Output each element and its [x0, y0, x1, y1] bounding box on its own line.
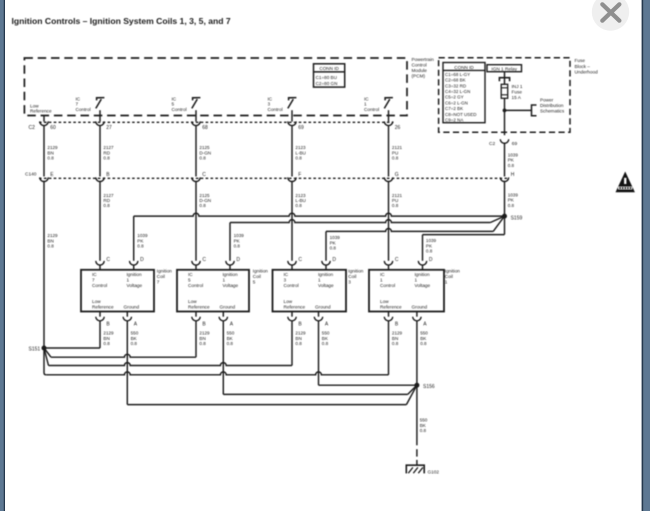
svg-text:Distribution: Distribution — [540, 103, 564, 108]
wire 550 BK 0.8 below coil 5 pin A — [223, 321, 234, 395]
coil 7 terminal C — [96, 257, 111, 270]
svg-text:0.8: 0.8 — [322, 341, 329, 346]
svg-text:0.8: 0.8 — [199, 156, 206, 161]
svg-text:0.8: 0.8 — [103, 203, 110, 208]
svg-text:Fuse: Fuse — [512, 90, 523, 95]
svg-text:C: C — [202, 172, 206, 178]
ignition voltage bus to coil 1 pin D — [423, 216, 505, 261]
coil 3 terminal B — [288, 312, 303, 328]
svg-text:Power: Power — [540, 97, 554, 102]
svg-text:C4=32 L-GN: C4=32 L-GN — [445, 89, 470, 94]
svg-text:27: 27 — [106, 125, 112, 131]
svg-text:Control: Control — [188, 283, 203, 288]
coil 3 terminal D — [322, 257, 337, 270]
wire break before ground — [416, 449, 418, 465]
PCM module dashed outline — [24, 58, 407, 116]
IC 5 Control driver switch Q2 inside PCM — [172, 96, 201, 121]
PCM module name label — [412, 57, 435, 78]
C2 terminal 27 — [96, 121, 112, 130]
svg-text:D: D — [236, 257, 240, 263]
Fuse Block - Underhood dashed outline — [439, 58, 570, 133]
svg-text:CONN ID: CONN ID — [319, 66, 339, 71]
svg-text:0.8: 0.8 — [420, 428, 427, 433]
svg-text:7: 7 — [157, 279, 160, 284]
svg-text:0.8: 0.8 — [47, 244, 54, 249]
svg-text:D: D — [140, 257, 144, 263]
ground bus from coil 7 pin A to S156 — [127, 385, 417, 404]
coil 7 terminal D — [130, 257, 145, 270]
svg-text:69: 69 — [298, 125, 304, 131]
wire 2125 D-GN 0.8 from C2 to C140 — [196, 126, 211, 177]
svg-text:S151: S151 — [29, 347, 41, 353]
svg-text:Reference: Reference — [30, 109, 52, 114]
svg-text:69: 69 — [512, 141, 518, 147]
wire 1039 PK 0.8 from C140 H down to splice S159 — [505, 181, 519, 216]
svg-text:C1=68 L-GY: C1=68 L-GY — [445, 72, 470, 77]
coil 5 terminal B — [192, 312, 207, 328]
svg-text:0.8: 0.8 — [330, 246, 337, 251]
ground bus from coil 3 pin A to S156 — [319, 384, 417, 386]
svg-text:0.8: 0.8 — [392, 341, 399, 346]
svg-text:Reference: Reference — [188, 304, 210, 309]
svg-text:0.8: 0.8 — [392, 156, 399, 161]
svg-text:Fuse: Fuse — [575, 58, 586, 63]
svg-text:Coil: Coil — [445, 274, 453, 279]
svg-text:Control: Control — [92, 283, 107, 288]
svg-text:0.8: 0.8 — [295, 203, 302, 208]
svg-text:Ignition: Ignition — [415, 272, 431, 277]
fuse label INJ 1 Fuse 15 A — [512, 84, 523, 100]
svg-text:C2=80 GN: C2=80 GN — [316, 81, 338, 86]
wire fuse to junction — [504, 98, 506, 110]
splice S156 — [414, 383, 434, 391]
coil 5 terminal C — [192, 257, 207, 270]
svg-text:C2: C2 — [29, 125, 36, 131]
svg-text:C3=32 RD: C3=32 RD — [445, 83, 467, 88]
svg-text:H: H — [511, 172, 515, 178]
low reference bus to coil 5 pin B — [44, 348, 196, 357]
svg-text:26: 26 — [395, 125, 401, 131]
wire 2121 PU 0.8 from C2 to C140 — [389, 126, 403, 177]
svg-text:Module: Module — [412, 68, 428, 73]
C2 terminal 69 — [288, 121, 304, 130]
svg-text:Voltage: Voltage — [318, 283, 334, 288]
svg-text:Low: Low — [380, 299, 389, 304]
svg-text:IGN 1 Relay: IGN 1 Relay — [491, 66, 517, 71]
svg-text:Underhood: Underhood — [575, 69, 599, 74]
svg-text:Ignition: Ignition — [445, 269, 461, 274]
left window border bar — [0, 0, 5, 511]
svg-text:C: C — [298, 257, 302, 263]
svg-text:15 A: 15 A — [512, 95, 522, 100]
svg-text:Ignition: Ignition — [157, 269, 173, 274]
junction node to power distribution — [503, 109, 507, 113]
wire 2125 D-GN 0.8 from C140 to ignition coil 5 pin C — [196, 181, 211, 261]
svg-text:0.8: 0.8 — [103, 341, 110, 346]
svg-text:C140: C140 — [25, 171, 37, 177]
svg-text:C: C — [106, 257, 110, 263]
svg-text:0.8: 0.8 — [508, 163, 515, 168]
svg-text:Ignition: Ignition — [253, 269, 269, 274]
svg-text:IC: IC — [284, 272, 289, 277]
low reference bus to coil 1 pin B — [44, 348, 389, 375]
svg-text:D: D — [429, 257, 433, 263]
C140 terminal C — [192, 172, 206, 182]
svg-text:Ground: Ground — [315, 304, 331, 309]
svg-text:A: A — [134, 321, 138, 327]
svg-text:A: A — [230, 321, 234, 327]
svg-text:Schematics: Schematics — [540, 108, 565, 113]
svg-text:Reference: Reference — [92, 304, 114, 309]
IC 3 Control driver switch Q3 inside PCM — [268, 96, 297, 121]
svg-text:C6=2 L-GN: C6=2 L-GN — [445, 100, 468, 105]
Fuse block CONN ID table — [443, 63, 485, 123]
svg-text:S156: S156 — [423, 384, 435, 390]
C140 terminal E — [40, 172, 54, 182]
C140 terminal F — [288, 172, 301, 182]
power distribution bracket — [532, 105, 537, 116]
svg-text:C: C — [395, 257, 399, 263]
ignition coil 5 box — [177, 270, 249, 312]
PCM CONN ID table U0 — [314, 64, 345, 87]
svg-text:C7=2 BK: C7=2 BK — [445, 106, 463, 111]
coil 3 terminal C — [288, 257, 303, 270]
svg-text:(PCM): (PCM) — [412, 74, 426, 79]
svg-text:68: 68 — [202, 125, 208, 131]
wire 1039 PK 0.8 fuse block to C140 — [505, 143, 519, 177]
ground bus from coil 5 pin A to S156 — [223, 385, 417, 394]
svg-text:IC: IC — [92, 272, 97, 277]
svg-text:0.8: 0.8 — [392, 203, 399, 208]
svg-text:C2=68 BK: C2=68 BK — [445, 78, 466, 83]
coil 5 terminal A — [219, 312, 234, 328]
Power Distribution Schematics label — [540, 97, 565, 113]
ignition coil 1 name label — [445, 269, 461, 285]
svg-text:Ignition: Ignition — [318, 272, 334, 277]
svg-text:Control: Control — [364, 107, 379, 112]
svg-text:C1=80 BU: C1=80 BU — [316, 75, 337, 80]
svg-text:Reference: Reference — [284, 304, 306, 309]
svg-text:1: 1 — [223, 278, 226, 283]
svg-text:Ignition: Ignition — [223, 272, 239, 277]
wire 2127 RD 0.8 from C2 to C140 — [100, 126, 114, 177]
ignition voltage bus to coil 3 pin D — [326, 216, 505, 261]
svg-text:IC: IC — [188, 272, 193, 277]
svg-text:Low: Low — [284, 299, 293, 304]
wire 2129 BN 0.8 below coil 5 pin B — [196, 321, 210, 358]
svg-text:3: 3 — [284, 278, 287, 283]
svg-text:Control: Control — [380, 283, 395, 288]
svg-text:0.8: 0.8 — [234, 244, 241, 249]
Fuse Block name label — [575, 58, 599, 74]
svg-text:Low: Low — [92, 299, 101, 304]
svg-text:0.8: 0.8 — [137, 244, 144, 249]
coil 1 terminal C — [384, 257, 399, 270]
ground symbol G102 — [406, 465, 439, 474]
svg-text:F: F — [298, 172, 301, 178]
svg-text:B: B — [395, 321, 399, 327]
coil 5 terminal D — [226, 257, 241, 270]
right window border bar — [642, 0, 650, 511]
coil 3 terminal A — [314, 312, 329, 328]
wire 550 BK 0.8 from S156 to ground G102 — [417, 385, 428, 445]
IC 7 Control driver switch Q1 inside PCM — [76, 96, 105, 121]
coil 1 terminal B — [384, 312, 399, 328]
svg-text:0.8: 0.8 — [199, 341, 206, 346]
ignition voltage bus to coil 5 pin D — [230, 216, 505, 261]
svg-text:C8=NOT USED: C8=NOT USED — [445, 112, 477, 117]
coil 7 terminal B — [96, 312, 111, 328]
svg-text:1: 1 — [127, 278, 130, 283]
connector C140 label — [25, 171, 37, 177]
connector C2 label — [29, 125, 36, 131]
coil 7 terminal A — [123, 312, 138, 328]
svg-text:0.8: 0.8 — [426, 249, 433, 254]
svg-text:0.8: 0.8 — [420, 341, 427, 346]
svg-text:0.8: 0.8 — [103, 156, 110, 161]
svg-text:B: B — [202, 321, 206, 327]
svg-text:S159: S159 — [511, 216, 523, 222]
svg-text:IC: IC — [380, 272, 385, 277]
svg-text:A: A — [423, 321, 427, 327]
svg-text:CONN ID: CONN ID — [454, 65, 474, 70]
ignition voltage bus to coil 7 pin D — [134, 213, 505, 261]
svg-text:Ignition: Ignition — [348, 269, 364, 274]
svg-text:Low: Low — [188, 299, 197, 304]
C2 terminal 60 — [40, 121, 56, 130]
low reference wire stub from PCM edge — [43, 116, 45, 122]
wire 2121 PU 0.8 from C140 to ignition coil 1 pin C — [389, 181, 403, 261]
svg-text:Coil: Coil — [157, 274, 165, 279]
C140 terminal G — [384, 172, 398, 182]
svg-text:Voltage: Voltage — [415, 283, 431, 288]
wire 2129 BN 0.8 below coil 3 pin B — [292, 321, 306, 366]
svg-text:1: 1 — [415, 278, 418, 283]
wire 550 BK 0.8 below coil 7 pin A — [127, 321, 138, 405]
fuse F1: INJ 1 Fuse 15 A — [501, 84, 508, 98]
PCM Low Reference pin label — [30, 104, 52, 114]
relay K1: IGN 1 Relay box — [487, 65, 522, 72]
wire 2129 BN 0.8 from C2 to C140 — [44, 126, 58, 177]
svg-text:Control: Control — [268, 107, 283, 112]
wire 550 BK 0.8 below coil 1 pin A — [417, 321, 428, 386]
relay output terminal — [499, 72, 509, 85]
wire 550 BK 0.8 below coil 3 pin A — [319, 321, 330, 386]
ignition feed wire inside fuse box down through box edge — [504, 110, 506, 135]
svg-text:B: B — [106, 321, 110, 327]
wire 2127 RD 0.8 from C140 to ignition coil 7 pin C — [100, 181, 114, 261]
svg-text:G: G — [395, 172, 399, 178]
svg-text:C2: C2 — [489, 141, 495, 147]
svg-text:0.8: 0.8 — [227, 341, 234, 346]
splice S159 — [502, 214, 522, 222]
svg-text:Ground: Ground — [220, 304, 236, 309]
svg-text:Ignition: Ignition — [127, 272, 143, 277]
svg-text:E: E — [50, 172, 54, 178]
svg-text:1: 1 — [445, 279, 448, 284]
svg-text:D: D — [332, 257, 336, 263]
svg-text:1: 1 — [380, 278, 383, 283]
svg-text:3: 3 — [348, 279, 351, 284]
close (X) button — [592, 0, 629, 31]
svg-text:7: 7 — [92, 278, 95, 283]
ignition coil 1 box — [369, 270, 444, 312]
svg-text:Control: Control — [412, 63, 427, 68]
low reference bus to coil 3 pin B — [44, 348, 292, 366]
svg-text:Coil: Coil — [253, 274, 261, 279]
diagram title — [12, 16, 231, 26]
wire 2129 BN 0.8 below coil 1 pin B — [389, 321, 403, 375]
svg-text:A: A — [325, 321, 329, 327]
svg-text:C: C — [202, 257, 206, 263]
svg-text:Ignition Controls – Ignition S: Ignition Controls – Ignition System Coil… — [12, 16, 231, 26]
IC 1 Control driver switch Q4 inside PCM — [364, 96, 393, 121]
svg-text:0.8: 0.8 — [131, 341, 138, 346]
svg-text:0.8: 0.8 — [47, 156, 54, 161]
splice S151 — [29, 346, 47, 353]
svg-text:B: B — [106, 172, 110, 178]
ignition coil 7 name label — [157, 269, 173, 285]
svg-text:0.8: 0.8 — [508, 203, 515, 208]
ignition coil 7 box — [81, 270, 154, 312]
svg-text:Control: Control — [172, 107, 187, 112]
C2 terminal 26 — [384, 121, 400, 130]
svg-text:Block –: Block – — [575, 64, 591, 69]
svg-text:C9=2 NA: C9=2 NA — [445, 118, 463, 123]
svg-text:0.8: 0.8 — [295, 156, 302, 161]
svg-text:0.8: 0.8 — [295, 341, 302, 346]
svg-text:Voltage: Voltage — [223, 283, 239, 288]
C140 terminal H — [500, 172, 514, 182]
connector C140 dotted line — [39, 177, 509, 179]
svg-text:Control: Control — [284, 283, 299, 288]
svg-text:Ground: Ground — [124, 304, 140, 309]
svg-text:5: 5 — [253, 279, 256, 284]
fuse block C2 terminal 69 — [489, 139, 517, 147]
caution triangle icon — [616, 172, 635, 193]
svg-text:G102: G102 — [428, 470, 440, 475]
coil 1 terminal D — [418, 257, 433, 270]
ignition coil 3 name label — [348, 269, 364, 285]
svg-text:Control: Control — [76, 107, 91, 112]
svg-text:60: 60 — [50, 125, 56, 131]
C2 terminal 68 — [192, 121, 208, 130]
svg-text:0.8: 0.8 — [199, 203, 206, 208]
coil 1 terminal A — [413, 312, 428, 328]
svg-text:Ground: Ground — [412, 304, 428, 309]
svg-text:5: 5 — [188, 278, 191, 283]
svg-text:B: B — [298, 321, 302, 327]
wire 2123 L-BU 0.8 from C140 to ignition coil 3 pin C — [292, 181, 306, 261]
wire 2129 BN 0.8 below coil 7 pin B — [100, 321, 114, 348]
svg-text:INJ 1: INJ 1 — [512, 84, 523, 89]
svg-text:Reference: Reference — [380, 304, 402, 309]
wire 2129 BN 0.8 from C140 E down to splice S151 — [44, 181, 58, 346]
ignition coil 5 name label — [253, 269, 269, 285]
ignition coil 3 box — [273, 270, 347, 312]
power distribution branch wire — [505, 109, 532, 111]
svg-text:Coil: Coil — [348, 274, 356, 279]
wire 2123 L-BU 0.8 from C2 to C140 — [292, 126, 306, 177]
svg-text:C5=2 GY: C5=2 GY — [445, 95, 464, 100]
svg-text:Powertrain: Powertrain — [412, 57, 435, 62]
low reference bus to coil 7 pin B — [44, 347, 100, 349]
svg-text:1: 1 — [318, 278, 321, 283]
svg-text:Voltage: Voltage — [127, 283, 143, 288]
connector C2 (PCM) dotted line — [39, 121, 394, 123]
C140 terminal B — [96, 172, 110, 182]
